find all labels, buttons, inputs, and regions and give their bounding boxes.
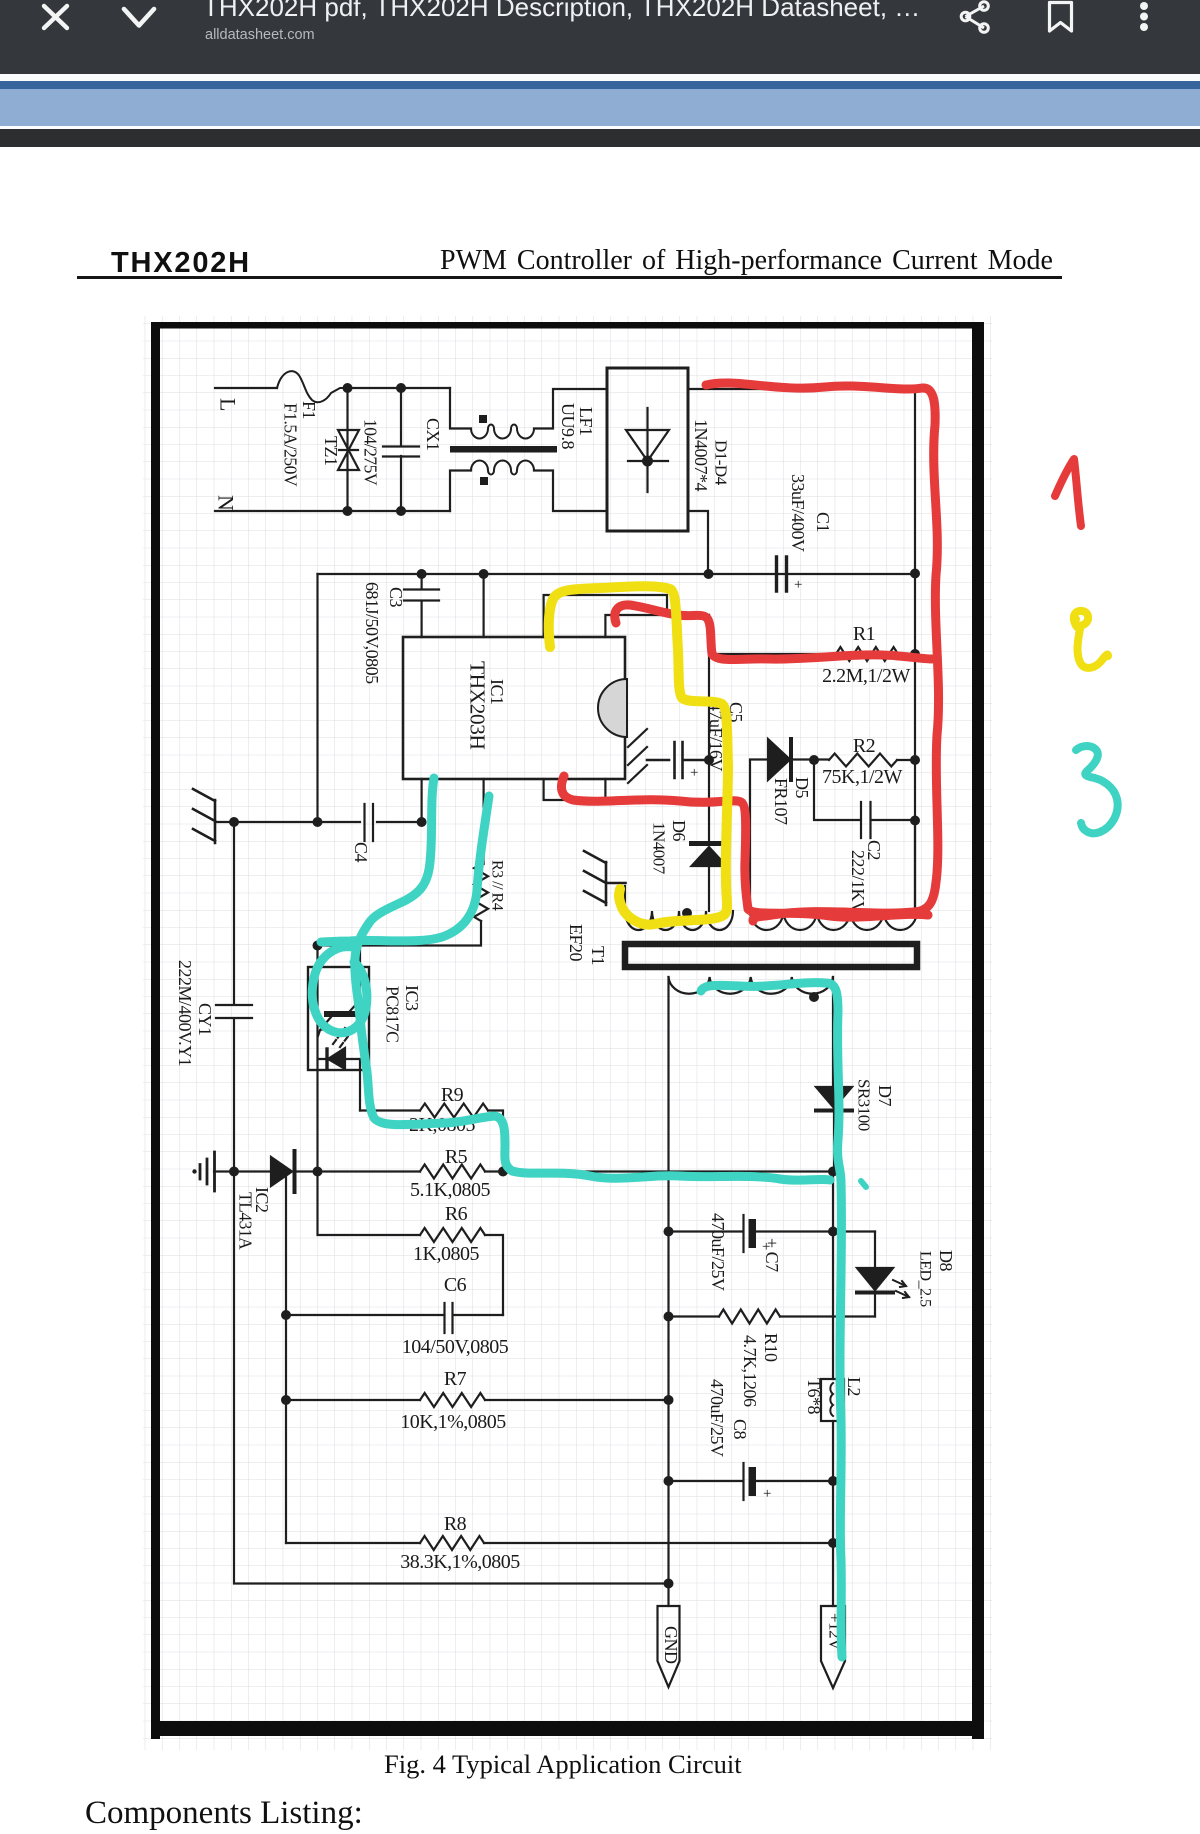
diode D6 1N4007: [692, 841, 727, 846]
svg-text:681J/50V,0805: 681J/50V,0805: [362, 582, 382, 684]
wire: [348, 387, 451, 389]
op-amp U1 : IC1 THX203H: [403, 637, 625, 779]
svg-text:222/1KV: 222/1KV: [848, 850, 868, 914]
svg-text:UU9.8: UU9.8: [558, 403, 578, 449]
ground chassis (primary): [193, 789, 215, 843]
wire TL431 row: [214, 1170, 420, 1172]
svg-text:FR107: FR107: [771, 778, 791, 825]
fuse F1: [277, 371, 348, 402]
handwritten 2 (yellow): [1074, 611, 1108, 668]
chevron down icon: [124, 9, 154, 26]
svg-text:+: +: [763, 1486, 771, 1502]
svg-text:THX203H: THX203H: [466, 661, 490, 749]
svg-text:470uF/25V: 470uF/25V: [707, 1379, 727, 1457]
svg-text:L2: L2: [844, 1377, 864, 1396]
LED inside PC817: [316, 946, 318, 1172]
svg-text:38.3K,1%,0805: 38.3K,1%,0805: [400, 1551, 520, 1573]
svg-text:PC817C: PC817C: [383, 986, 403, 1042]
grid background: [143, 316, 992, 1750]
svg-text:F1: F1: [299, 401, 319, 419]
transformer T1 primary winding: [625, 911, 733, 930]
varistor TZ1: [346, 388, 348, 511]
wire: [316, 574, 318, 822]
node L: [215, 387, 277, 389]
svg-text:R1: R1: [853, 623, 875, 645]
svg-text:TL431A: TL431A: [236, 1192, 256, 1250]
svg-text:222M/400V.Y1: 222M/400V.Y1: [175, 960, 195, 1066]
capacitor CY1: [216, 822, 252, 1172]
svg-text:470uF/25V: 470uF/25V: [708, 1213, 728, 1291]
svg-text:D5: D5: [792, 777, 812, 798]
svg-text:+: +: [762, 1239, 770, 1255]
svg-text:+: +: [690, 765, 698, 781]
shunt reference IC2 TL431A: [271, 1157, 292, 1186]
resistor R8: [286, 1542, 420, 1544]
svg-text:CX1: CX1: [423, 418, 443, 451]
resistor R1: [836, 647, 898, 661]
inductor LF1 bottom winding: [450, 471, 471, 512]
capacitor C8: [669, 1480, 834, 1482]
svg-text:R5: R5: [445, 1146, 468, 1168]
wire HV feed vertical: [708, 615, 710, 841]
inductor L2: [821, 1379, 844, 1421]
svg-text:104/275V: 104/275V: [361, 419, 381, 486]
close icon: [44, 6, 67, 28]
optocoupler IC3 PC817C: [308, 967, 369, 1070]
wire IC1 pin stub: [483, 574, 485, 637]
strips: [0, 74, 1200, 81]
svg-text:C6: C6: [444, 1274, 467, 1296]
wire right bus: [914, 573, 916, 911]
wire bottom rail: [234, 1172, 669, 1584]
browser top bar: [0, 0, 1200, 74]
wire C4 row: [215, 821, 422, 823]
svg-text:L: L: [216, 398, 241, 411]
svg-text:C4: C4: [351, 842, 371, 863]
svg-text:R3 // R4: R3 // R4: [488, 860, 505, 911]
resistor R3//R4: [474, 864, 488, 921]
svg-text:D8: D8: [936, 1250, 956, 1271]
menu dots icon: [1140, 2, 1148, 31]
svg-text:D6: D6: [669, 820, 689, 841]
wire +12V bus: [832, 1172, 834, 1607]
svg-text:GND: GND: [661, 1626, 681, 1664]
svg-text:R7: R7: [444, 1368, 467, 1390]
transformer T1 secondary winding: [669, 977, 833, 994]
cyan annotation stroke (R3R4): [321, 796, 489, 942]
svg-text:TZ1: TZ1: [321, 436, 341, 466]
svg-text:IC3: IC3: [402, 985, 422, 1011]
svg-text:2.2M,1/2W: 2.2M,1/2W: [822, 665, 910, 687]
LF1 phase dots: [479, 415, 487, 423]
svg-text:R6: R6: [445, 1203, 468, 1225]
schematic frame: [151, 322, 984, 329]
IC1 pins hatch: [628, 729, 647, 783]
svg-text:75K,1/2W: 75K,1/2W: [822, 766, 903, 788]
datasheet page header: [111, 247, 251, 280]
svg-text:5.1K,0805: 5.1K,0805: [410, 1179, 490, 1201]
terminal GND: [658, 1606, 680, 1687]
svg-text:104/50V,0805: 104/50V,0805: [402, 1336, 509, 1358]
node N / wire: [215, 510, 450, 512]
capacitor C2: [814, 760, 915, 838]
cyan annotation stroke (feedback path): [355, 778, 830, 1180]
svg-text:1N4007*4: 1N4007*4: [691, 419, 711, 491]
caption: [384, 1749, 742, 1780]
svg-text:F1.5A/250V: F1.5A/250V: [281, 403, 301, 487]
svg-text:+: +: [794, 577, 802, 593]
svg-text:R8: R8: [444, 1513, 467, 1535]
resistor R9: [360, 1109, 420, 1111]
red annotation stroke (C5 area): [561, 776, 928, 917]
resistor R10: [669, 1315, 720, 1317]
ground chassis (aux): [584, 851, 626, 905]
wire aux winding up: [750, 760, 769, 912]
T1 core: [625, 944, 917, 967]
svg-text:N: N: [214, 495, 239, 511]
svg-text:1K,0805: 1K,0805: [413, 1243, 479, 1265]
bridge rectifier D1-D4: [607, 368, 688, 531]
wire HV bus: [318, 573, 916, 575]
capacitor C4: [365, 804, 374, 841]
cyan annotation loop around optocoupler: [312, 947, 367, 1033]
capacitor C3: [404, 574, 439, 637]
svg-text:4.7K,1206: 4.7K,1206: [740, 1335, 760, 1407]
resistor R7: [286, 1399, 420, 1401]
svg-text:D1-D4: D1-D4: [712, 440, 731, 486]
svg-text:R2: R2: [853, 735, 875, 757]
yellow annotation stroke: [549, 586, 728, 924]
svg-text:SR3100: SR3100: [855, 1079, 874, 1131]
svg-text:R10: R10: [761, 1333, 781, 1362]
ground earth (TL431): [200, 1152, 215, 1191]
red annotation stroke along R1: [615, 605, 932, 660]
svg-text:EF20: EF20: [566, 924, 586, 962]
svg-text:10K,1%,0805: 10K,1%,0805: [400, 1411, 506, 1433]
diode D7 SR3100: [832, 977, 834, 1087]
svg-text:R9: R9: [441, 1084, 464, 1106]
capacitor C5: [647, 742, 709, 778]
resistor R6: [318, 1172, 421, 1236]
resistor R2: [829, 754, 897, 767]
share icon: [961, 2, 988, 33]
handwritten 1 (red): [1055, 459, 1081, 526]
svg-text:CY1: CY1: [195, 1003, 215, 1036]
svg-text:LF1: LF1: [576, 407, 596, 436]
svg-text:T6*8: T6*8: [804, 1378, 824, 1414]
wire bridge out bottom: [688, 511, 708, 573]
bookmark icon: [1050, 3, 1072, 32]
handwritten 3 (cyan): [1076, 746, 1118, 833]
svg-text:C3: C3: [386, 587, 406, 608]
resistor R5: [420, 1165, 485, 1179]
capacitor C7: [669, 1230, 876, 1232]
capacitor CX1: [383, 388, 419, 511]
svg-text:T1: T1: [588, 946, 608, 965]
wire IC1 bottom pins: [422, 779, 606, 864]
wire bridge out top: [688, 389, 915, 573]
terminal +12V: [821, 1606, 845, 1688]
red annotation loop (1): [706, 383, 939, 921]
svg-text:C8: C8: [730, 1419, 750, 1440]
svg-text:1N4007: 1N4007: [650, 822, 669, 875]
svg-text:D7: D7: [875, 1085, 895, 1106]
wire GND stub: [667, 1584, 669, 1607]
cyan tick: [861, 1181, 866, 1187]
wire step to R1: [544, 595, 667, 637]
inductor LF1 top winding: [450, 388, 471, 429]
diode D5 FR107: [768, 739, 790, 780]
svg-text:C1: C1: [813, 512, 833, 532]
svg-text:LED_2.5: LED_2.5: [916, 1251, 933, 1307]
capacitor C6: [286, 1172, 503, 1544]
LF1 core: [450, 446, 557, 453]
LED D8: [874, 1232, 876, 1269]
capacitor C1: [777, 557, 787, 591]
transformer T1 aux winding: [750, 911, 917, 930]
cyan annotation stroke (secondary to +12V): [701, 983, 842, 1657]
svg-text:33uF/400V: 33uF/400V: [788, 474, 808, 552]
